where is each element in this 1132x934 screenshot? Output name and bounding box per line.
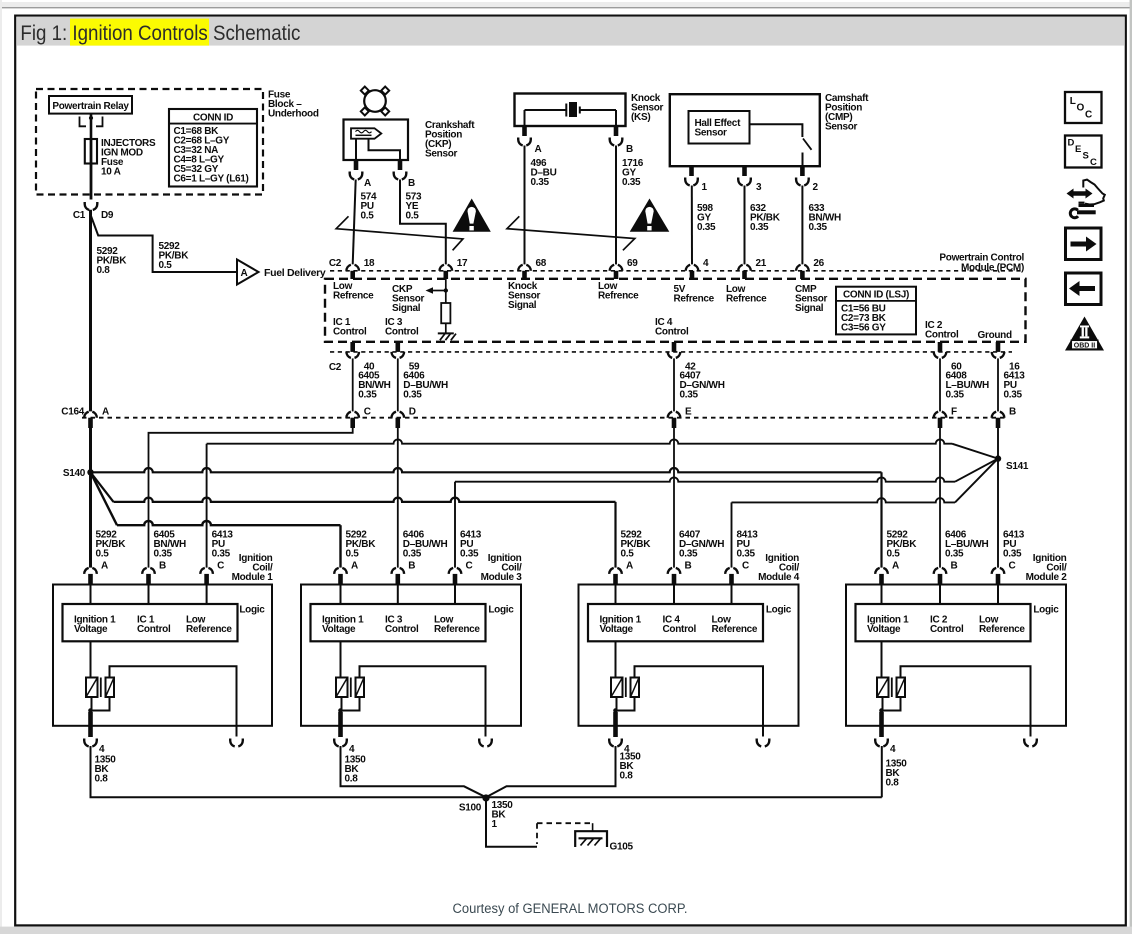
svg-text:B: B — [1009, 407, 1016, 418]
svg-text:F: F — [951, 407, 957, 418]
svg-text:0.5: 0.5 — [346, 549, 360, 560]
svg-text:S140: S140 — [63, 468, 86, 479]
svg-text:Refrence: Refrence — [598, 291, 639, 302]
svg-text:C2: C2 — [329, 258, 342, 269]
svg-text:Refrence: Refrence — [674, 294, 715, 305]
svg-text:1: 1 — [702, 182, 708, 193]
svg-text:D: D — [1068, 138, 1075, 149]
svg-text:0.35: 0.35 — [531, 177, 550, 188]
svg-text:A: A — [102, 407, 109, 418]
svg-text:Control: Control — [333, 327, 367, 338]
svg-text:Control: Control — [925, 330, 959, 341]
svg-text:Underhood: Underhood — [268, 109, 319, 120]
svg-text:Reference: Reference — [434, 624, 480, 635]
svg-text:Module 2: Module 2 — [1026, 572, 1068, 583]
svg-text:CONN ID (LSJ): CONN ID (LSJ) — [843, 290, 909, 301]
svg-text:0.8: 0.8 — [886, 778, 900, 789]
svg-text:B: B — [951, 561, 958, 572]
svg-text:Control: Control — [385, 624, 419, 635]
svg-text:0.35: 0.35 — [679, 549, 698, 560]
svg-text:Sensor: Sensor — [425, 149, 458, 160]
svg-text:A: A — [241, 268, 248, 279]
svg-text:C164: C164 — [61, 407, 84, 418]
svg-text:Courtesy of GENERAL MOTORS COR: Courtesy of GENERAL MOTORS CORP. — [453, 901, 688, 916]
svg-text:B: B — [685, 561, 692, 572]
svg-text:S: S — [1083, 151, 1089, 162]
svg-text:Signal: Signal — [392, 303, 421, 314]
svg-text:0.35: 0.35 — [946, 390, 965, 401]
svg-text:A: A — [101, 561, 108, 572]
svg-text:Control: Control — [663, 624, 697, 635]
svg-text:Reference: Reference — [712, 624, 758, 635]
svg-text:Voltage: Voltage — [322, 624, 356, 635]
svg-text:C: C — [364, 407, 371, 418]
svg-text:0.35: 0.35 — [697, 222, 716, 233]
svg-text:CONN ID: CONN ID — [193, 113, 233, 124]
svg-text:C: C — [217, 561, 224, 572]
svg-text:C6=1 L–GY (L61): C6=1 L–GY (L61) — [174, 174, 249, 185]
svg-text:Reference: Reference — [186, 624, 232, 635]
svg-text:0.35: 0.35 — [945, 549, 964, 560]
svg-text:Module 4: Module 4 — [758, 572, 800, 583]
svg-text:L: L — [1070, 96, 1076, 107]
svg-text:A: A — [535, 144, 542, 155]
svg-text:0.5: 0.5 — [621, 549, 635, 560]
svg-text:0.5: 0.5 — [361, 211, 375, 222]
svg-text:0.35: 0.35 — [212, 549, 231, 560]
svg-text:0.5: 0.5 — [406, 211, 420, 222]
svg-text:69: 69 — [627, 258, 638, 269]
svg-text:4: 4 — [349, 744, 355, 755]
svg-text:0.8: 0.8 — [95, 774, 109, 785]
svg-text:68: 68 — [536, 258, 547, 269]
svg-text:D: D — [409, 407, 416, 418]
svg-text:17: 17 — [457, 258, 468, 269]
svg-text:Control: Control — [655, 327, 689, 338]
svg-text:A: A — [892, 561, 899, 572]
svg-text:Refrence: Refrence — [726, 294, 767, 305]
svg-text:Ground: Ground — [978, 330, 1012, 341]
svg-text:0.35: 0.35 — [622, 177, 641, 188]
svg-text:0.35: 0.35 — [460, 549, 479, 560]
svg-text:A: A — [351, 561, 358, 572]
svg-text:E: E — [685, 407, 692, 418]
svg-text:C2: C2 — [329, 362, 342, 373]
svg-text:3: 3 — [756, 182, 762, 193]
svg-text:C3=56 GY: C3=56 GY — [841, 323, 886, 334]
svg-text:0.35: 0.35 — [403, 390, 422, 401]
svg-text:0.35: 0.35 — [750, 222, 769, 233]
svg-text:S141: S141 — [1006, 461, 1029, 472]
svg-text:C: C — [1085, 110, 1092, 121]
svg-text:Logic: Logic — [766, 605, 792, 616]
svg-text:0.35: 0.35 — [154, 549, 173, 560]
svg-text:B: B — [408, 561, 415, 572]
svg-text:B: B — [159, 561, 166, 572]
svg-text:S100: S100 — [459, 803, 482, 814]
svg-text:0.8: 0.8 — [620, 771, 634, 782]
svg-text:Voltage: Voltage — [600, 624, 634, 635]
svg-text:10 A: 10 A — [101, 167, 121, 178]
svg-text:D9: D9 — [101, 210, 114, 221]
svg-text:0.35: 0.35 — [358, 390, 377, 401]
svg-text:Voltage: Voltage — [867, 624, 901, 635]
svg-text:E: E — [1075, 144, 1081, 155]
svg-text:A: A — [364, 178, 371, 189]
svg-text:Logic: Logic — [1033, 605, 1059, 616]
svg-text:C: C — [466, 561, 473, 572]
svg-text:Signal: Signal — [508, 300, 537, 311]
svg-text:0.5: 0.5 — [159, 260, 173, 271]
svg-text:Sensor: Sensor — [825, 122, 858, 133]
svg-text:C: C — [1009, 561, 1016, 572]
svg-text:0.35: 0.35 — [809, 222, 828, 233]
svg-text:Powertrain Relay: Powertrain Relay — [52, 101, 129, 112]
svg-text:26: 26 — [813, 258, 824, 269]
svg-text:G105: G105 — [610, 842, 634, 853]
svg-text:Control: Control — [385, 327, 419, 338]
svg-text:C: C — [1090, 157, 1097, 168]
svg-text:O: O — [1077, 103, 1085, 114]
svg-text:B: B — [408, 178, 415, 189]
svg-text:0.8: 0.8 — [97, 265, 111, 276]
svg-text:Logic: Logic — [488, 605, 514, 616]
svg-text:0.35: 0.35 — [1003, 549, 1022, 560]
svg-text:Signal: Signal — [795, 303, 824, 314]
svg-text:Voltage: Voltage — [74, 624, 108, 635]
svg-text:4: 4 — [890, 744, 896, 755]
svg-text:0.35: 0.35 — [737, 549, 756, 560]
svg-text:0.5: 0.5 — [96, 549, 110, 560]
svg-text:0.8: 0.8 — [345, 774, 359, 785]
svg-text:2: 2 — [813, 182, 819, 193]
svg-text:Module (PCM): Module (PCM) — [961, 262, 1024, 273]
svg-text:0.35: 0.35 — [403, 549, 422, 560]
svg-text:0.5: 0.5 — [887, 549, 901, 560]
svg-text:B: B — [626, 144, 633, 155]
svg-text:Sensor: Sensor — [695, 128, 728, 139]
svg-text:OBD II: OBD II — [1074, 343, 1095, 350]
svg-text:4: 4 — [703, 258, 709, 269]
svg-text:Control: Control — [137, 624, 171, 635]
svg-text:Logic: Logic — [239, 605, 265, 616]
svg-text:Fuel Delivery: Fuel Delivery — [264, 267, 326, 279]
svg-text:C1: C1 — [73, 210, 86, 221]
svg-text:Fig 1: Ignition Controls Schem: Fig 1: Ignition Controls Schematic — [20, 22, 300, 45]
svg-text:18: 18 — [364, 258, 375, 269]
svg-text:21: 21 — [756, 258, 767, 269]
svg-text:0.35: 0.35 — [680, 390, 699, 401]
svg-text:A: A — [626, 561, 633, 572]
svg-text:0.35: 0.35 — [1004, 390, 1023, 401]
svg-text:4: 4 — [99, 744, 105, 755]
svg-text:Control: Control — [930, 624, 964, 635]
svg-text:Reference: Reference — [979, 624, 1025, 635]
svg-text:Module 1: Module 1 — [232, 572, 274, 583]
svg-text:(KS): (KS) — [631, 112, 650, 123]
svg-text:Refrence: Refrence — [333, 291, 374, 302]
svg-text:1: 1 — [492, 819, 498, 830]
svg-text:Module 3: Module 3 — [481, 572, 523, 583]
svg-text:C: C — [742, 561, 749, 572]
